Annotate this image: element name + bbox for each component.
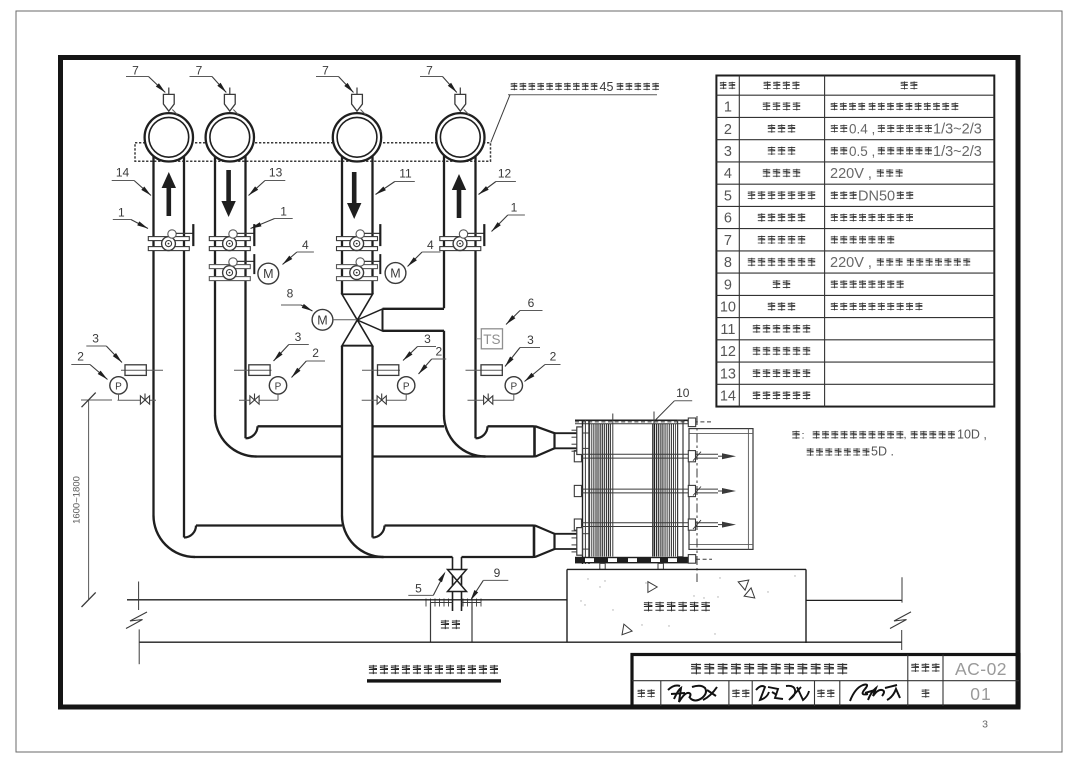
svg-text::: : bbox=[802, 430, 805, 441]
svg-text:7: 7 bbox=[132, 64, 139, 78]
remark row1: double-flange type, install above plate height bbox=[831, 103, 838, 111]
svg-text:45: 45 bbox=[600, 80, 614, 94]
remark row5: not less than DN50 bore bbox=[831, 191, 838, 199]
motorized three-way regulating valve 8 on riser 3 (bowtie) bbox=[342, 293, 373, 295]
svg-text:3: 3 bbox=[295, 330, 302, 344]
svg-text:4: 4 bbox=[427, 238, 434, 252]
floor break mark left bbox=[126, 612, 147, 629]
flow arrow riser 11 down bbox=[347, 203, 361, 219]
automatic air vent 7 on riser 4 bbox=[459, 88, 461, 95]
svg-text:4: 4 bbox=[302, 238, 309, 252]
svg-text:0.5 ,: 0.5 , bbox=[849, 144, 875, 159]
manual butterfly valve 1 on riser 3 bbox=[337, 237, 378, 241]
branch connection circle on main, riser 2 bbox=[206, 113, 254, 161]
svg-text:7: 7 bbox=[724, 233, 732, 249]
elbow riser4 into upper run bbox=[444, 415, 486, 457]
thermowell 3 + pressure gauge 2 + drain cock, riser 2 bbox=[234, 369, 272, 371]
svg-text:,: , bbox=[904, 430, 907, 441]
signature 3 (approver) bbox=[850, 685, 900, 702]
plate heat exchanger 10 bbox=[572, 412, 754, 583]
svg-text:1/3~2/3: 1/3~2/3 bbox=[933, 144, 982, 160]
upper run end flange and reducer cone bbox=[533, 425, 536, 457]
signature 1 (compiler) bbox=[668, 686, 717, 703]
manual butterfly valve 1 on riser 1 bbox=[148, 237, 189, 241]
svg-text:1600~1800: 1600~1800 bbox=[72, 476, 83, 524]
motor M of three-way valve 8 bbox=[312, 309, 333, 330]
riser pipe 14 (secondary outlet, leftmost) walls bbox=[152, 150, 154, 516]
svg-text:0.4 ,: 0.4 , bbox=[849, 122, 875, 137]
svg-text:5D .: 5D . bbox=[871, 445, 894, 459]
atlas-number label bbox=[911, 663, 919, 672]
svg-text:2: 2 bbox=[77, 350, 84, 364]
floor break mark right bbox=[890, 612, 911, 629]
thermowell 3 + pressure gauge 2 + drain cock, riser 3 bbox=[362, 369, 400, 371]
elbow riser3 into lower run bbox=[342, 516, 384, 558]
svg-text:DN50: DN50 bbox=[858, 188, 895, 204]
lower run end flange and reducer cone bbox=[533, 525, 536, 559]
svg-text:220V ,: 220V , bbox=[830, 166, 872, 182]
compiled-by label bbox=[638, 689, 645, 697]
svg-text:1/3~2/3: 1/3~2/3 bbox=[933, 122, 982, 138]
remark row2: accuracy 0.4, reading within 1/3~2/3 of range bbox=[831, 125, 838, 133]
svg-text:TS: TS bbox=[483, 332, 500, 347]
svg-text:12: 12 bbox=[720, 344, 736, 360]
svg-text:P: P bbox=[510, 381, 517, 392]
svg-text:13: 13 bbox=[269, 166, 283, 180]
branch connection circle on main, riser 3 bbox=[333, 113, 381, 161]
svg-text:12: 12 bbox=[498, 167, 512, 181]
svg-text:AC-02: AC-02 bbox=[955, 659, 1007, 679]
flow arrow riser 13 down bbox=[221, 201, 235, 217]
svg-text:14: 14 bbox=[116, 166, 130, 180]
svg-text:4: 4 bbox=[724, 166, 732, 182]
svg-text:5: 5 bbox=[415, 582, 422, 596]
riser pipe 12 (primary outlet, 4th) walls, left wall broken at bypass tee bbox=[443, 150, 445, 308]
svg-text:2: 2 bbox=[436, 345, 443, 359]
bypass branch cone from three-way valve bbox=[357, 309, 382, 331]
trench (gutter) under drain bbox=[431, 602, 453, 604]
svg-text:9: 9 bbox=[724, 277, 732, 293]
svg-text:10D ,: 10D , bbox=[957, 427, 987, 441]
signature 2 (checker) bbox=[756, 686, 809, 700]
svg-text:M: M bbox=[317, 313, 327, 327]
heat exchanger concrete foundation bbox=[567, 568, 806, 570]
automatic air vent 7 on riser 1 bbox=[168, 88, 170, 95]
manual butterfly valve 1 on riser 4 bbox=[440, 237, 481, 241]
svg-text:9: 9 bbox=[494, 566, 501, 580]
svg-text:5: 5 bbox=[724, 188, 732, 204]
svg-text:6: 6 bbox=[528, 296, 535, 310]
checked-by label bbox=[732, 689, 739, 697]
svg-text:11: 11 bbox=[720, 322, 735, 338]
svg-text:6: 6 bbox=[724, 211, 732, 227]
thermowell 3 + pressure gauge 2 + drain cock, riser 4 bbox=[466, 369, 504, 371]
remark row6: controls electric three-way valve bbox=[831, 214, 838, 222]
note: secondary header has heat meter, 10D upstream 5D downstream bbox=[792, 431, 799, 439]
svg-text:3: 3 bbox=[424, 332, 431, 346]
electric butterfly valve 4 on riser 2 with motor M bbox=[209, 265, 250, 269]
automatic air vent 7 on riser 3 bbox=[356, 88, 358, 95]
remark row10: exchanger connected in parallel-flow bbox=[831, 303, 838, 311]
floor lower line bbox=[139, 641, 902, 643]
svg-text:14: 14 bbox=[720, 389, 736, 405]
svg-text:1: 1 bbox=[724, 100, 732, 116]
title text bbox=[691, 663, 701, 674]
remark row3: accuracy 0.5, reading within 1/3~2/3 of range bbox=[831, 147, 838, 155]
upper horizontal run to exchanger top nozzle bbox=[258, 425, 343, 427]
lower horizontal run to exchanger bottom nozzle bbox=[196, 524, 342, 526]
riser pipe 11 (primary inlet, 3rd) walls bbox=[341, 150, 343, 294]
riser pipe 13 (secondary inlet, 2nd) walls bbox=[214, 150, 216, 415]
svg-text:M: M bbox=[263, 267, 273, 281]
title block bbox=[632, 655, 1019, 707]
page label bbox=[922, 689, 930, 698]
temperature sensor TS box (legend 6) bbox=[476, 338, 481, 340]
dimension line 1600~1800 bbox=[88, 400, 90, 600]
svg-text:11: 11 bbox=[399, 167, 412, 181]
branch connection circle on main, riser 4 bbox=[436, 113, 484, 161]
svg-text:1: 1 bbox=[118, 206, 125, 220]
flow arrow riser 14 up bbox=[162, 172, 176, 188]
svg-text:01: 01 bbox=[970, 684, 991, 704]
svg-text:2: 2 bbox=[312, 346, 319, 360]
main pipe header (insulated band, dashed outline) bbox=[135, 143, 491, 161]
approved-by label bbox=[817, 689, 824, 697]
svg-text:3: 3 bbox=[92, 332, 99, 346]
main drawing frame bbox=[61, 58, 1019, 708]
svg-text:3: 3 bbox=[724, 144, 732, 160]
thermowell 3 + pressure gauge 2 + drain cock, riser 1 bbox=[121, 369, 163, 371]
remark row7: gate valve before air vent bbox=[831, 236, 838, 244]
concrete speckle dots bbox=[645, 582, 646, 583]
drawing caption: heating plate heat exchanger piping schematic bbox=[369, 665, 377, 674]
automatic air vent 7 on riser 2 bbox=[229, 88, 231, 95]
svg-text:1: 1 bbox=[280, 205, 287, 219]
svg-text:3: 3 bbox=[982, 719, 988, 731]
remark row9: trench needs waterproofing bbox=[831, 280, 838, 288]
svg-text:P: P bbox=[403, 381, 410, 392]
svg-text:2: 2 bbox=[724, 122, 732, 138]
annotation: main/branch connections use 45-degree lateral tees bbox=[511, 83, 518, 91]
svg-text:10: 10 bbox=[720, 300, 736, 316]
svg-text:P: P bbox=[275, 381, 282, 392]
trench label (gutter) bbox=[441, 620, 449, 629]
drain pipe from lower run bbox=[452, 557, 454, 611]
elbow riser2 into upper run bbox=[215, 415, 257, 457]
svg-text:7: 7 bbox=[322, 64, 329, 78]
concrete symbol triangles bbox=[648, 582, 657, 593]
svg-text:2: 2 bbox=[550, 350, 557, 364]
table header bbox=[720, 82, 727, 89]
bypass pipe to riser 4 bbox=[383, 308, 445, 310]
svg-text:1: 1 bbox=[511, 201, 518, 215]
gate valve 5 on drain (vertical bowtie) bbox=[448, 570, 467, 581]
svg-text:3: 3 bbox=[527, 333, 534, 347]
svg-text:8: 8 bbox=[287, 287, 294, 301]
svg-text:P: P bbox=[115, 381, 122, 392]
flow arrow riser 12 up bbox=[452, 174, 466, 190]
manual butterfly valve 1 on riser 2 bbox=[209, 237, 250, 241]
svg-text:7: 7 bbox=[426, 64, 433, 78]
svg-text:8: 8 bbox=[724, 255, 732, 271]
branch connection circle on main, riser 1 bbox=[145, 113, 193, 161]
svg-text:220V ,: 220V , bbox=[830, 255, 872, 271]
legend table bbox=[716, 76, 994, 407]
svg-text:10: 10 bbox=[676, 386, 690, 400]
svg-text:M: M bbox=[390, 267, 400, 281]
foundation label (concrete base) bbox=[644, 602, 653, 612]
svg-text:13: 13 bbox=[720, 366, 736, 382]
electric butterfly valve 4 on riser 3 with motor M bbox=[337, 265, 378, 269]
svg-text:7: 7 bbox=[196, 64, 203, 78]
elbow riser1 into lower run bbox=[154, 516, 196, 558]
floor upper line bbox=[127, 599, 567, 601]
